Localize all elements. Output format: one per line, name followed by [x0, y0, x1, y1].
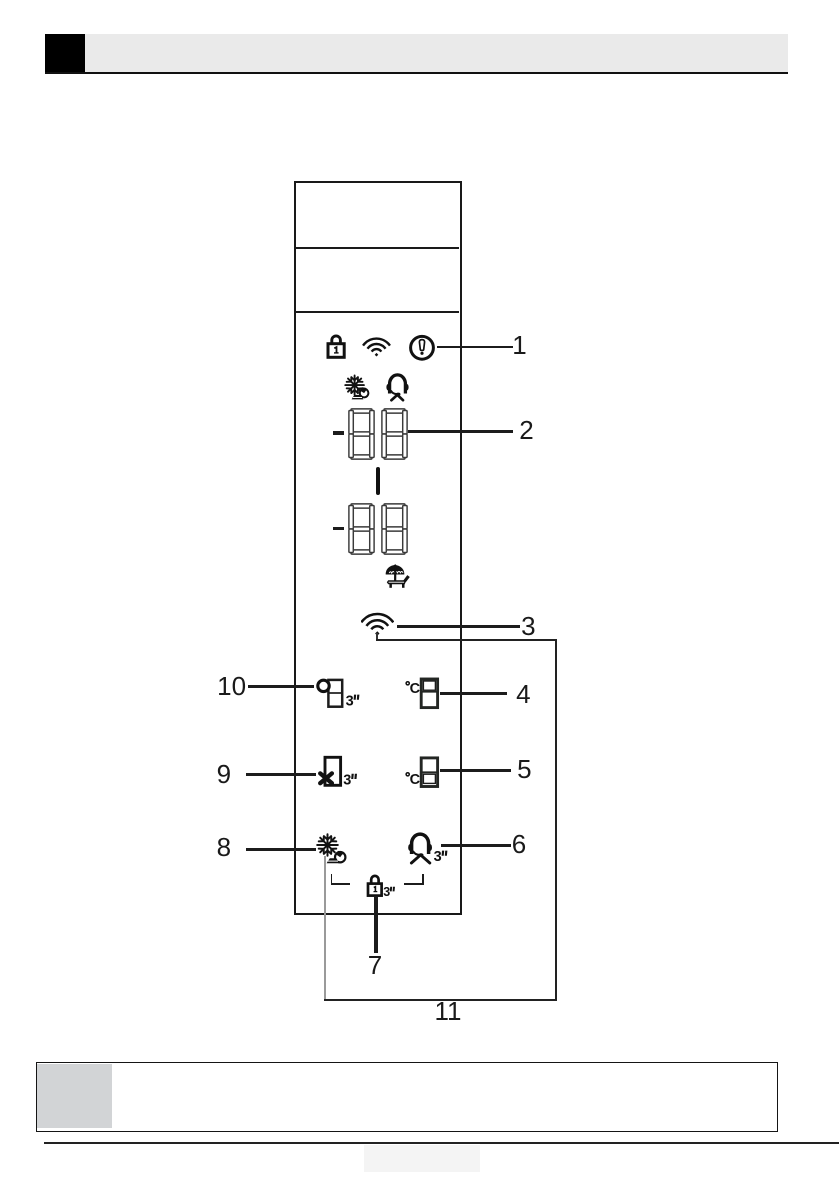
note box: [36, 1062, 778, 1132]
display separator bar: [376, 467, 379, 495]
svg-text:3: 3: [383, 885, 390, 899]
label 9: [217, 761, 231, 787]
leader line 6: [441, 844, 511, 847]
callout 11 right segment: [555, 639, 557, 1000]
header black square: [45, 34, 85, 74]
label 7: [368, 952, 382, 978]
leader line 8: [246, 848, 316, 851]
panel divider 1: [295, 247, 459, 249]
status lock icon: [326, 333, 346, 359]
label 6: [512, 831, 526, 857]
display lower digit 2: [381, 503, 408, 555]
label 5: [517, 756, 531, 782]
button 10: ionizer/door icon: [312, 673, 362, 709]
header underline: [45, 72, 788, 75]
display lower: minus sign: [333, 527, 344, 530]
button 4: fridge temperature icon: [402, 673, 442, 710]
footer page tab: [364, 1145, 480, 1172]
display upper digit 2: [381, 408, 408, 460]
wifi button icon: [361, 611, 394, 638]
label 8: [217, 834, 231, 860]
header gray title bar: [85, 34, 788, 72]
display lower digit 1: [348, 503, 375, 555]
button 9: door alarm off icon: [314, 752, 360, 788]
svg-text:3: 3: [434, 849, 442, 865]
svg-text:C: C: [410, 772, 421, 788]
leader line 4: [440, 692, 507, 695]
leader line 7 vertical: [374, 896, 377, 953]
callout 11 bottom segment: [324, 999, 557, 1001]
button 5: freezer temperature icon: [402, 753, 442, 789]
vacation indicator icon: [385, 563, 411, 588]
svg-text:3: 3: [343, 773, 351, 788]
note box gray square: [37, 1064, 112, 1129]
panel divider 2: [295, 311, 459, 313]
leader line 1: [437, 346, 513, 348]
status alarm icon: [408, 334, 436, 362]
display upper: minus sign: [333, 431, 344, 434]
label 10: [217, 673, 246, 699]
label 4: [516, 681, 530, 707]
key lock bracket right: [404, 883, 424, 885]
status wifi icon: [362, 335, 391, 358]
button 6: call service icon: [405, 832, 451, 867]
key lock bracket left: [331, 874, 333, 885]
leader line 9: [246, 773, 316, 776]
leader line 2: [408, 430, 513, 432]
svg-text:C: C: [410, 681, 421, 697]
headset indicator icon: [386, 373, 409, 402]
callout 11 gray left segment: [324, 856, 326, 999]
label 1: [512, 332, 526, 358]
leader line 10: [248, 685, 314, 688]
callout 11 top segment: [376, 639, 557, 641]
callout 11 stub under wifi: [376, 633, 378, 639]
label 2: [519, 417, 533, 443]
display upper digit 1: [348, 408, 375, 460]
quick freeze indicator icon: [344, 374, 371, 402]
leader line 3: [397, 625, 520, 627]
label 3: [521, 613, 535, 639]
button 8: quick freeze icon: [313, 832, 349, 868]
leader line 5: [440, 769, 511, 772]
label 11: [435, 998, 462, 1024]
button 7: key lock icon: [364, 871, 396, 899]
control panel outline: [294, 181, 463, 915]
svg-text:3: 3: [346, 693, 354, 709]
footer rule: [44, 1142, 839, 1144]
